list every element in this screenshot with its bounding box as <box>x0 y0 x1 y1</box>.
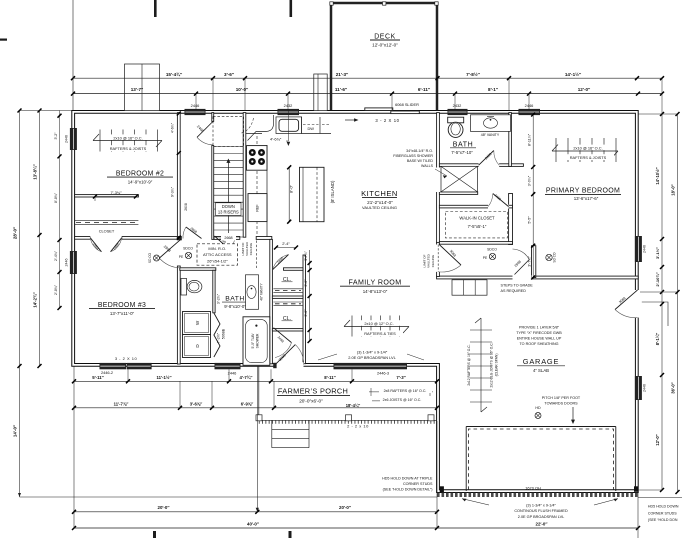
kitchen counter west edge <box>266 145 268 237</box>
svg-text:FAMILY ROOM: FAMILY ROOM <box>348 279 401 287</box>
svg-text:12′-0″x12′-0″: 12′-0″x12′-0″ <box>372 43 398 48</box>
porch post east <box>428 415 434 421</box>
porch post west <box>256 415 262 421</box>
svg-text:7′-8½″: 7′-8½″ <box>466 71 481 77</box>
svg-text:20′-0″x6′-0″: 20′-0″x6′-0″ <box>299 398 323 403</box>
svg-text:2608: 2608 <box>184 203 188 211</box>
svg-text:CONTINOUS FLUSH FRAMED: CONTINOUS FLUSH FRAMED <box>514 509 568 513</box>
svg-text:2x10 @ 16″ O.C.: 2x10 @ 16″ O.C. <box>113 135 142 140</box>
window 2446 top (primary) <box>519 109 541 115</box>
dim ticks stairhall <box>177 112 181 116</box>
svg-text:7′-5″x7′-10″: 7′-5″x7′-10″ <box>451 150 473 155</box>
bottom long extensions <box>73 366 75 528</box>
landing outside garage door <box>642 302 668 326</box>
svg-text:6′-9⅝″: 6′-9⅝″ <box>241 401 254 406</box>
top dim line 2 <box>73 93 662 95</box>
kitchen island <box>300 167 325 221</box>
vaulted ceiling dash line hall <box>255 241 257 269</box>
kitchen sink <box>276 117 302 134</box>
hall dim 2-4 <box>276 247 296 249</box>
wall closets east (entry) <box>303 255 306 364</box>
wall primary-bedroom / garage divider <box>437 276 639 279</box>
svg-text:(SEE “HOLD DOWN DETAIL”): (SEE “HOLD DOWN DETAIL”) <box>383 488 433 492</box>
svg-text:3′-0¼″: 3′-0¼″ <box>527 175 531 186</box>
svg-text:PE: PE <box>179 255 184 259</box>
svg-text:3′-0″: 3′-0″ <box>304 279 308 287</box>
top dim line 1 <box>73 77 662 79</box>
svg-text:5′-0″ TUB/: 5′-0″ TUB/ <box>251 333 255 348</box>
svg-text:14′-9″x10′-9″: 14′-9″x10′-9″ <box>128 179 153 184</box>
svg-text:PROVIDE 1 LAYER 5/8″: PROVIDE 1 LAYER 5/8″ <box>519 326 560 330</box>
svg-text:REF: REF <box>256 204 260 212</box>
svg-text:48″ VANITY: 48″ VANITY <box>481 133 500 137</box>
garage door track dashed <box>469 429 614 490</box>
svg-text:2′-8¾″: 2′-8¾″ <box>54 284 58 295</box>
svg-text:PITCH 1/8″ PER FOOT: PITCH 1/8″ PER FOOT <box>542 396 581 400</box>
svg-text:13′-7″: 13′-7″ <box>131 87 144 92</box>
window 2432 top (kitchen) <box>278 109 300 115</box>
svg-text:HD5 HOLD DOWN AT TRIPLE: HD5 HOLD DOWN AT TRIPLE <box>382 477 433 481</box>
svg-text:3′-7¼″: 3′-7¼″ <box>527 256 531 267</box>
svg-text:2432: 2432 <box>453 103 462 108</box>
primary interior dim line <box>532 113 534 278</box>
closet double doors bedroom2 <box>90 236 121 241</box>
door 2868 mudroom-south <box>513 249 530 260</box>
bottom connector y497 <box>20 496 438 498</box>
svg-text:2x12 CLG JOISTS @ 16″ O.C.: 2x12 CLG JOISTS @ 16″ O.C. <box>490 342 494 387</box>
svg-text:4′-6¼″: 4′-6¼″ <box>171 122 175 133</box>
sheet tick mark left edge <box>0 39 7 41</box>
wall laundry east <box>213 270 215 313</box>
svg-text:14′-8″x13′-0″: 14′-8″x13′-0″ <box>363 289 388 294</box>
svg-text:2x8 RAFTERS @ 16″ O.C.: 2x8 RAFTERS @ 16″ O.C. <box>384 389 427 393</box>
closet1 shelf <box>273 288 302 290</box>
wall primary west short <box>532 246 536 278</box>
kitchen corner cabinet <box>248 115 274 141</box>
door 2468 cl1 <box>273 255 289 270</box>
corner hold-down block left <box>440 486 444 492</box>
svg-text:2′-4¾″: 2′-4¾″ <box>54 250 58 261</box>
right extension horizontals <box>638 113 678 115</box>
sheet tick mark top-left <box>154 0 157 17</box>
svg-text:21′-3″: 21′-3″ <box>336 72 349 77</box>
svg-text:1670 OH: 1670 OH <box>525 485 541 490</box>
svg-text:26″x54-1/2″: 26″x54-1/2″ <box>207 258 228 263</box>
attic access box <box>197 244 238 265</box>
svg-text:3 - 2 X 10: 3 - 2 X 10 <box>375 118 399 123</box>
bottom ext verticals <box>127 369 129 381</box>
svg-text:2446: 2446 <box>64 135 68 143</box>
rafter text bedroom2 <box>106 134 149 140</box>
svg-text:BEDROOM #2: BEDROOM #2 <box>116 171 164 178</box>
svg-text:KITCHEN: KITCHEN <box>361 189 398 198</box>
wall hall/bath north A <box>214 237 240 240</box>
svg-text:AS REQUIRED: AS REQUIRED <box>501 289 527 293</box>
svg-text:SDCO: SDCO <box>183 247 193 251</box>
wall end jamb <box>177 236 182 240</box>
window 2446 bottom (bath) <box>215 363 241 369</box>
kitchen upper cabinets dashed <box>256 136 258 236</box>
deck post top-mid <box>383 2 386 5</box>
wall bedroom2/3 divider west <box>75 237 91 240</box>
svg-text:ENTIRE HOUSE WALL UP: ENTIRE HOUSE WALL UP <box>517 337 562 341</box>
wall walk-in closet east <box>509 194 513 245</box>
svg-text:15′-4¾″: 15′-4¾″ <box>166 71 183 77</box>
svg-text:(CLEAR SPAN): (CLEAR SPAN) <box>495 354 499 377</box>
rafter symbol bedroom2 <box>93 140 162 142</box>
svg-text:ATTIC ACCESS: ATTIC ACCESS <box>203 252 232 257</box>
svg-text:13′-7″x11′-0″: 13′-7″x11′-0″ <box>110 311 135 316</box>
wall walk-in-closet south <box>439 242 512 245</box>
left inner dim line <box>39 111 41 367</box>
svg-text:W: W <box>195 320 200 325</box>
svg-text:13 RISERS: 13 RISERS <box>218 210 239 215</box>
svg-text:WALLS: WALLS <box>421 164 434 168</box>
svg-text:CEILING: CEILING <box>249 242 253 255</box>
svg-text:11′-7⅞″: 11′-7⅞″ <box>114 401 129 406</box>
door 2868 mudroom-south gap <box>513 275 532 279</box>
svg-text:48″ VANITY: 48″ VANITY <box>260 282 264 300</box>
svg-text:PRIMARY BEDROOM: PRIMARY BEDROOM <box>546 188 620 195</box>
svg-text:8′-11¼″: 8′-11¼″ <box>527 133 531 146</box>
svg-text:RAFTERS & JOISTS: RAFTERS & JOISTS <box>110 146 147 151</box>
toilet hall bath <box>181 279 187 296</box>
deck outline <box>331 3 437 112</box>
wall stair east / kitchen west <box>243 113 246 238</box>
porch hatch band <box>259 420 437 423</box>
svg-text:2x10 @ 16″ O.C.: 2x10 @ 16″ O.C. <box>573 145 602 150</box>
svg-text:2′-4″: 2′-4″ <box>282 242 290 246</box>
wall toilet-nook north <box>180 268 216 271</box>
garage foundation hatch <box>437 493 638 497</box>
svg-text:28′-0″: 28′-0″ <box>13 226 18 239</box>
door 2468 wic gap <box>488 205 509 209</box>
svg-text:CL.: CL. <box>283 277 291 283</box>
window 2446 top (bedroom2) <box>185 109 206 115</box>
kitchen range <box>247 146 268 171</box>
svg-text:STEPS TO GRADE: STEPS TO GRADE <box>501 284 534 288</box>
stair open rail dashed <box>213 116 244 146</box>
svg-text:3′-6″: 3′-6″ <box>224 72 235 77</box>
shower pan with X <box>441 166 478 192</box>
svg-text:12′-0″: 12′-0″ <box>578 87 591 92</box>
sheet tick mark bottom-middle <box>289 531 292 538</box>
wall walk-in-closet north <box>439 205 512 208</box>
svg-text:3′-0″: 3′-0″ <box>304 309 308 317</box>
wall closet1 north <box>284 268 304 271</box>
svg-text:5068B: 5068B <box>222 328 226 339</box>
stair treads <box>214 146 244 148</box>
garage lvl leaders <box>462 499 618 505</box>
window 2446 right (primary) <box>635 236 642 262</box>
wall shower south <box>439 192 477 195</box>
door 2468 bath2 <box>479 151 494 166</box>
svg-text:3′-2″: 3′-2″ <box>54 132 58 140</box>
toilet bath2 <box>448 117 464 123</box>
svg-text:MIN. R.O.: MIN. R.O. <box>208 246 226 251</box>
door 3068 front entry gap <box>277 362 304 370</box>
door 2468 bath2 gap <box>479 163 500 167</box>
svg-text:2668: 2668 <box>224 236 232 240</box>
door 3068 garage-right <box>615 290 638 310</box>
left outer dim line <box>19 111 21 498</box>
stair direction arrow <box>227 162 229 233</box>
flue box kitchen <box>314 74 327 111</box>
svg-text:BASE W/ TILED: BASE W/ TILED <box>407 159 433 163</box>
svg-text:DOWN: DOWN <box>222 204 235 209</box>
svg-text:4′-7¾″: 4′-7¾″ <box>240 375 253 380</box>
svg-text:6068 SLIDER: 6068 SLIDER <box>395 102 419 107</box>
label 3-2x10 with arrow <box>345 119 356 121</box>
garage joist symbol <box>480 318 482 412</box>
svg-text:5′-5″: 5′-5″ <box>527 216 531 224</box>
door 3068 front entry <box>275 345 295 365</box>
wall bath2 south <box>439 164 523 167</box>
kitchen dishwasher DW <box>302 117 331 134</box>
svg-text:3′-2¾″: 3′-2¾″ <box>217 293 221 304</box>
svg-text:TYPE “X” FIRECODE GWB: TYPE “X” FIRECODE GWB <box>516 331 562 335</box>
svg-text:2x6 JOISTS @ 16″ O.C.: 2x6 JOISTS @ 16″ O.C. <box>383 398 422 402</box>
svg-text:(3) 1-3/4″ x 9-1/4″: (3) 1-3/4″ x 9-1/4″ <box>526 504 556 508</box>
cased opening mudroom-west <box>436 245 440 272</box>
svg-text:2.0E GP BROADSPAN LVL: 2.0E GP BROADSPAN LVL <box>518 515 564 519</box>
smoke detector primary <box>546 254 552 260</box>
svg-text:10′-0″: 10′-0″ <box>236 87 249 92</box>
extension through sink <box>287 111 289 142</box>
svg-text:6′-11″: 6′-11″ <box>418 87 431 92</box>
svg-text:9′-3¼″: 9′-3¼″ <box>171 186 175 197</box>
limit of vaulted ceiling dash mud <box>437 245 439 272</box>
svg-text:4″ SLAB: 4″ SLAB <box>533 368 549 373</box>
wall bedroom2/3 divider mid <box>122 237 180 240</box>
vanity bath2 <box>471 115 511 132</box>
svg-text:14′-1½″: 14′-1½″ <box>565 71 582 77</box>
wall bath east (hall bath) <box>270 239 273 363</box>
tub hall bath <box>243 317 270 366</box>
svg-text:8′-1″: 8′-1″ <box>488 87 499 92</box>
svg-text:RAFTERS & JOISTS: RAFTERS & JOISTS <box>570 155 607 160</box>
svg-text:14′-10½″: 14′-10½″ <box>655 167 660 184</box>
svg-text:SHOWER: SHOWER <box>256 333 260 348</box>
wall stair west <box>212 146 214 240</box>
wall bedroom2 east main <box>177 113 180 240</box>
closet shelf dashed <box>75 220 139 222</box>
right dim line <box>661 114 663 490</box>
svg-text:PE: PE <box>483 256 488 260</box>
far right dim line <box>677 114 679 492</box>
svg-text:2x10 @ 12″ O.C.: 2x10 @ 12″ O.C. <box>364 321 393 326</box>
svg-text:13′-6″x17′-6″: 13′-6″x17′-6″ <box>574 196 599 201</box>
rafter text primary <box>571 145 614 151</box>
svg-text:2′-10¾″: 2′-10¾″ <box>655 272 660 286</box>
svg-text:(SEE “HOLD DON: (SEE “HOLD DON <box>648 518 678 522</box>
stair label DOWN 13 RISERS <box>216 203 242 216</box>
svg-text:18′-4¼″: 18′-4¼″ <box>346 403 361 408</box>
kitchen dim 4-6-3/4 <box>266 135 287 142</box>
door 2468 hallbath <box>215 236 230 250</box>
svg-text:4′-6¾″: 4′-6¾″ <box>270 136 282 141</box>
svg-text:12′-0″: 12′-0″ <box>655 434 660 445</box>
wall closet divider <box>272 296 303 298</box>
corner hold-down block <box>634 486 639 492</box>
svg-text:8′-8¾″: 8′-8¾″ <box>54 192 58 203</box>
svg-text:36′-0″: 36′-0″ <box>671 382 676 393</box>
svg-text:3′-6⅝″: 3′-6⅝″ <box>190 401 203 406</box>
svg-text:DECK: DECK <box>374 34 396 41</box>
svg-text:2 - 2 x 10: 2 - 2 x 10 <box>347 424 369 429</box>
vanity hall bath <box>246 275 259 310</box>
top dim line 2 ticks <box>71 92 75 96</box>
svg-text:13′-8¼″: 13′-8¼″ <box>33 164 38 179</box>
svg-text:GARAGE: GARAGE <box>523 357 559 366</box>
porch steps <box>272 420 309 447</box>
svg-text:FIBERGLASS SHOWER: FIBERGLASS SHOWER <box>393 154 433 158</box>
wall closet2 south <box>272 329 303 331</box>
svg-text:VAULTED CEILING: VAULTED CEILING <box>362 205 397 210</box>
wall bath2 east <box>509 113 512 167</box>
svg-text:7′-3″: 7′-3″ <box>396 375 405 380</box>
island dim line <box>288 167 290 221</box>
svg-text:HD5 HOLD DOWN: HD5 HOLD DOWN <box>648 505 679 509</box>
kitchen refrigerator <box>248 194 267 222</box>
wall hall/bath north B <box>256 237 272 240</box>
svg-text:SD CO: SD CO <box>148 252 152 263</box>
svg-text:HD: HD <box>535 406 541 410</box>
svg-text:40′-0″: 40′-0″ <box>247 521 260 526</box>
svg-text:CORNER STUDS: CORNER STUDS <box>648 511 677 515</box>
family lvl leaders <box>318 354 424 360</box>
svg-text:20′-0″: 20′-0″ <box>158 505 171 510</box>
svg-text:FARMER’S PORCH: FARMER’S PORCH <box>278 386 348 395</box>
top dim line 1 ticks <box>71 76 75 80</box>
window 2446 left upper <box>70 128 77 150</box>
svg-text:RAFTERS & TIES: RAFTERS & TIES <box>364 331 396 336</box>
extension x662 to top <box>661 78 663 114</box>
closet dim 7-3 <box>95 196 136 198</box>
washer box <box>183 312 211 335</box>
left window dim line <box>59 111 61 309</box>
svg-text:2446: 2446 <box>643 384 647 392</box>
svg-text:34″x48-1/4″ R.O.: 34″x48-1/4″ R.O. <box>406 149 433 153</box>
svg-text:2.0E GP BROADSPAN LVL: 2.0E GP BROADSPAN LVL <box>348 355 396 360</box>
door 2468 bedroom2 <box>197 121 213 137</box>
slider 6068 <box>365 108 393 111</box>
wall closet north (bedroom2) <box>75 195 139 197</box>
svg-text:SDCO: SDCO <box>487 248 497 252</box>
bottom dim line 2 <box>74 407 437 409</box>
door mudroom-west arc <box>439 245 461 266</box>
svg-text:14′-2¾″: 14′-2¾″ <box>33 292 38 307</box>
svg-text:22′-0″: 22′-0″ <box>536 521 549 526</box>
door 2468 cl2 <box>274 328 292 343</box>
svg-text:3′-1½″: 3′-1½″ <box>655 247 660 259</box>
wall stair west top stub <box>212 113 214 122</box>
svg-text:CEILING: CEILING <box>431 254 435 267</box>
deck post top-left <box>330 2 333 5</box>
bottom dim line 4 <box>74 527 638 529</box>
svg-text:(8′ ISLAND): (8′ ISLAND) <box>330 180 335 203</box>
window 2446-3 bottom (family) <box>334 363 408 369</box>
steps to grade box <box>452 280 487 295</box>
window 2446 left lower <box>70 251 77 274</box>
deck post top-right <box>435 2 438 5</box>
svg-text:BATH: BATH <box>453 141 474 148</box>
svg-text:5′-11″: 5′-11″ <box>92 375 103 380</box>
svg-text:WALK-IN CLOSET: WALK-IN CLOSET <box>459 215 495 220</box>
exterior wall outline (house + garage) <box>72 111 638 493</box>
rafter text family <box>357 320 401 326</box>
svg-text:2446: 2446 <box>191 103 200 108</box>
door 2868 bedroom3 <box>159 239 181 258</box>
svg-text:CLOSET: CLOSET <box>99 229 115 234</box>
svg-text:TOWARDS DOORS: TOWARDS DOORS <box>544 402 578 406</box>
wall bedroom3 east <box>177 266 180 364</box>
label 2668 <box>221 235 236 241</box>
sheet tick mark top-middle <box>290 0 293 17</box>
svg-text:20′-0″: 20′-0″ <box>339 505 352 510</box>
door 3068 garage-right gap <box>635 290 643 318</box>
svg-text:CL.: CL. <box>283 316 291 322</box>
bifold 5068B laundry <box>214 313 220 357</box>
svg-text:2446-3: 2446-3 <box>377 371 389 376</box>
svg-text:CORNER STUDS: CORNER STUDS <box>403 482 433 486</box>
rafter symbol primary <box>552 150 618 152</box>
entry dim line <box>309 250 311 341</box>
svg-text:8′-1¼″: 8′-1¼″ <box>655 333 660 346</box>
opening hall-east (kitchen to primary hall) <box>436 168 440 193</box>
porch east-west floor edge <box>259 419 437 421</box>
bottom dim line 1 <box>74 380 437 382</box>
walk-in closet shelves dashed <box>446 212 508 238</box>
svg-text:7′-2½″: 7′-2½″ <box>217 332 221 343</box>
window 2446-2 bottom pair <box>100 363 127 369</box>
kitchen counter north edge <box>246 133 262 135</box>
window 2446 right (garage) <box>635 376 642 400</box>
svg-text:7′-5″x5′-1″: 7′-5″x5′-1″ <box>468 224 487 229</box>
garage door jamb left <box>465 427 467 492</box>
door 2468 wic <box>493 194 509 207</box>
svg-text:2x12 RAFTERS @ 16″ O.C.: 2x12 RAFTERS @ 16″ O.C. <box>467 344 471 385</box>
svg-text:18′-0″: 18′-0″ <box>671 184 676 195</box>
chimney box left <box>125 64 160 111</box>
svg-text:11′-6″: 11′-6″ <box>335 87 348 92</box>
svg-text:DW: DW <box>307 126 314 131</box>
window 2432 top (bath2) <box>448 109 468 115</box>
rafter symbol family <box>344 326 409 328</box>
dryer box <box>183 335 211 358</box>
svg-text:2446: 2446 <box>643 245 647 253</box>
wall mudroom-west (family room / garage) <box>437 243 440 277</box>
svg-text:3 - 2 X 10: 3 - 2 X 10 <box>115 356 138 361</box>
svg-text:BATH: BATH <box>225 296 245 303</box>
porch west edge <box>258 366 260 420</box>
svg-text:11′-1½″: 11′-1½″ <box>156 375 171 380</box>
svg-text:TO ROOF SHEATHING: TO ROOF SHEATHING <box>520 342 559 346</box>
svg-text:8′-11″: 8′-11″ <box>324 375 335 380</box>
porch post mid <box>346 415 352 421</box>
garage door header <box>466 426 616 428</box>
svg-text:2446: 2446 <box>64 259 68 267</box>
svg-text:3′-7¼″: 3′-7¼″ <box>304 250 308 260</box>
closet2 shelf <box>273 301 302 303</box>
smoke detector bedroom3 <box>154 255 160 261</box>
sheet tick mark bottom-left <box>153 531 156 538</box>
bottom dim line 3 <box>74 511 437 513</box>
svg-text:9′-8″x10′-0″: 9′-8″x10′-0″ <box>224 304 246 309</box>
wall kitchen east / bath west <box>437 113 440 243</box>
dim extension verticals top <box>212 78 214 110</box>
door 2868 basement stair <box>186 227 202 239</box>
